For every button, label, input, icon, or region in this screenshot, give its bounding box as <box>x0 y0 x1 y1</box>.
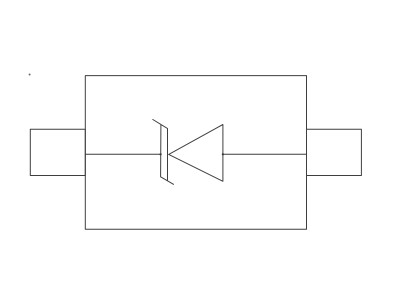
junction dot anode wire <box>222 153 224 155</box>
left lead terminal <box>30 129 85 175</box>
package body outline <box>85 76 306 230</box>
junction dot cathode wire <box>160 153 162 155</box>
diode D1 anode triangle <box>169 125 223 182</box>
stray dot mark <box>29 74 31 76</box>
diode D1 cathode bar <box>153 120 174 185</box>
right lead terminal <box>307 129 362 175</box>
wire cathode side <box>85 153 160 155</box>
wire anode side <box>223 153 307 155</box>
